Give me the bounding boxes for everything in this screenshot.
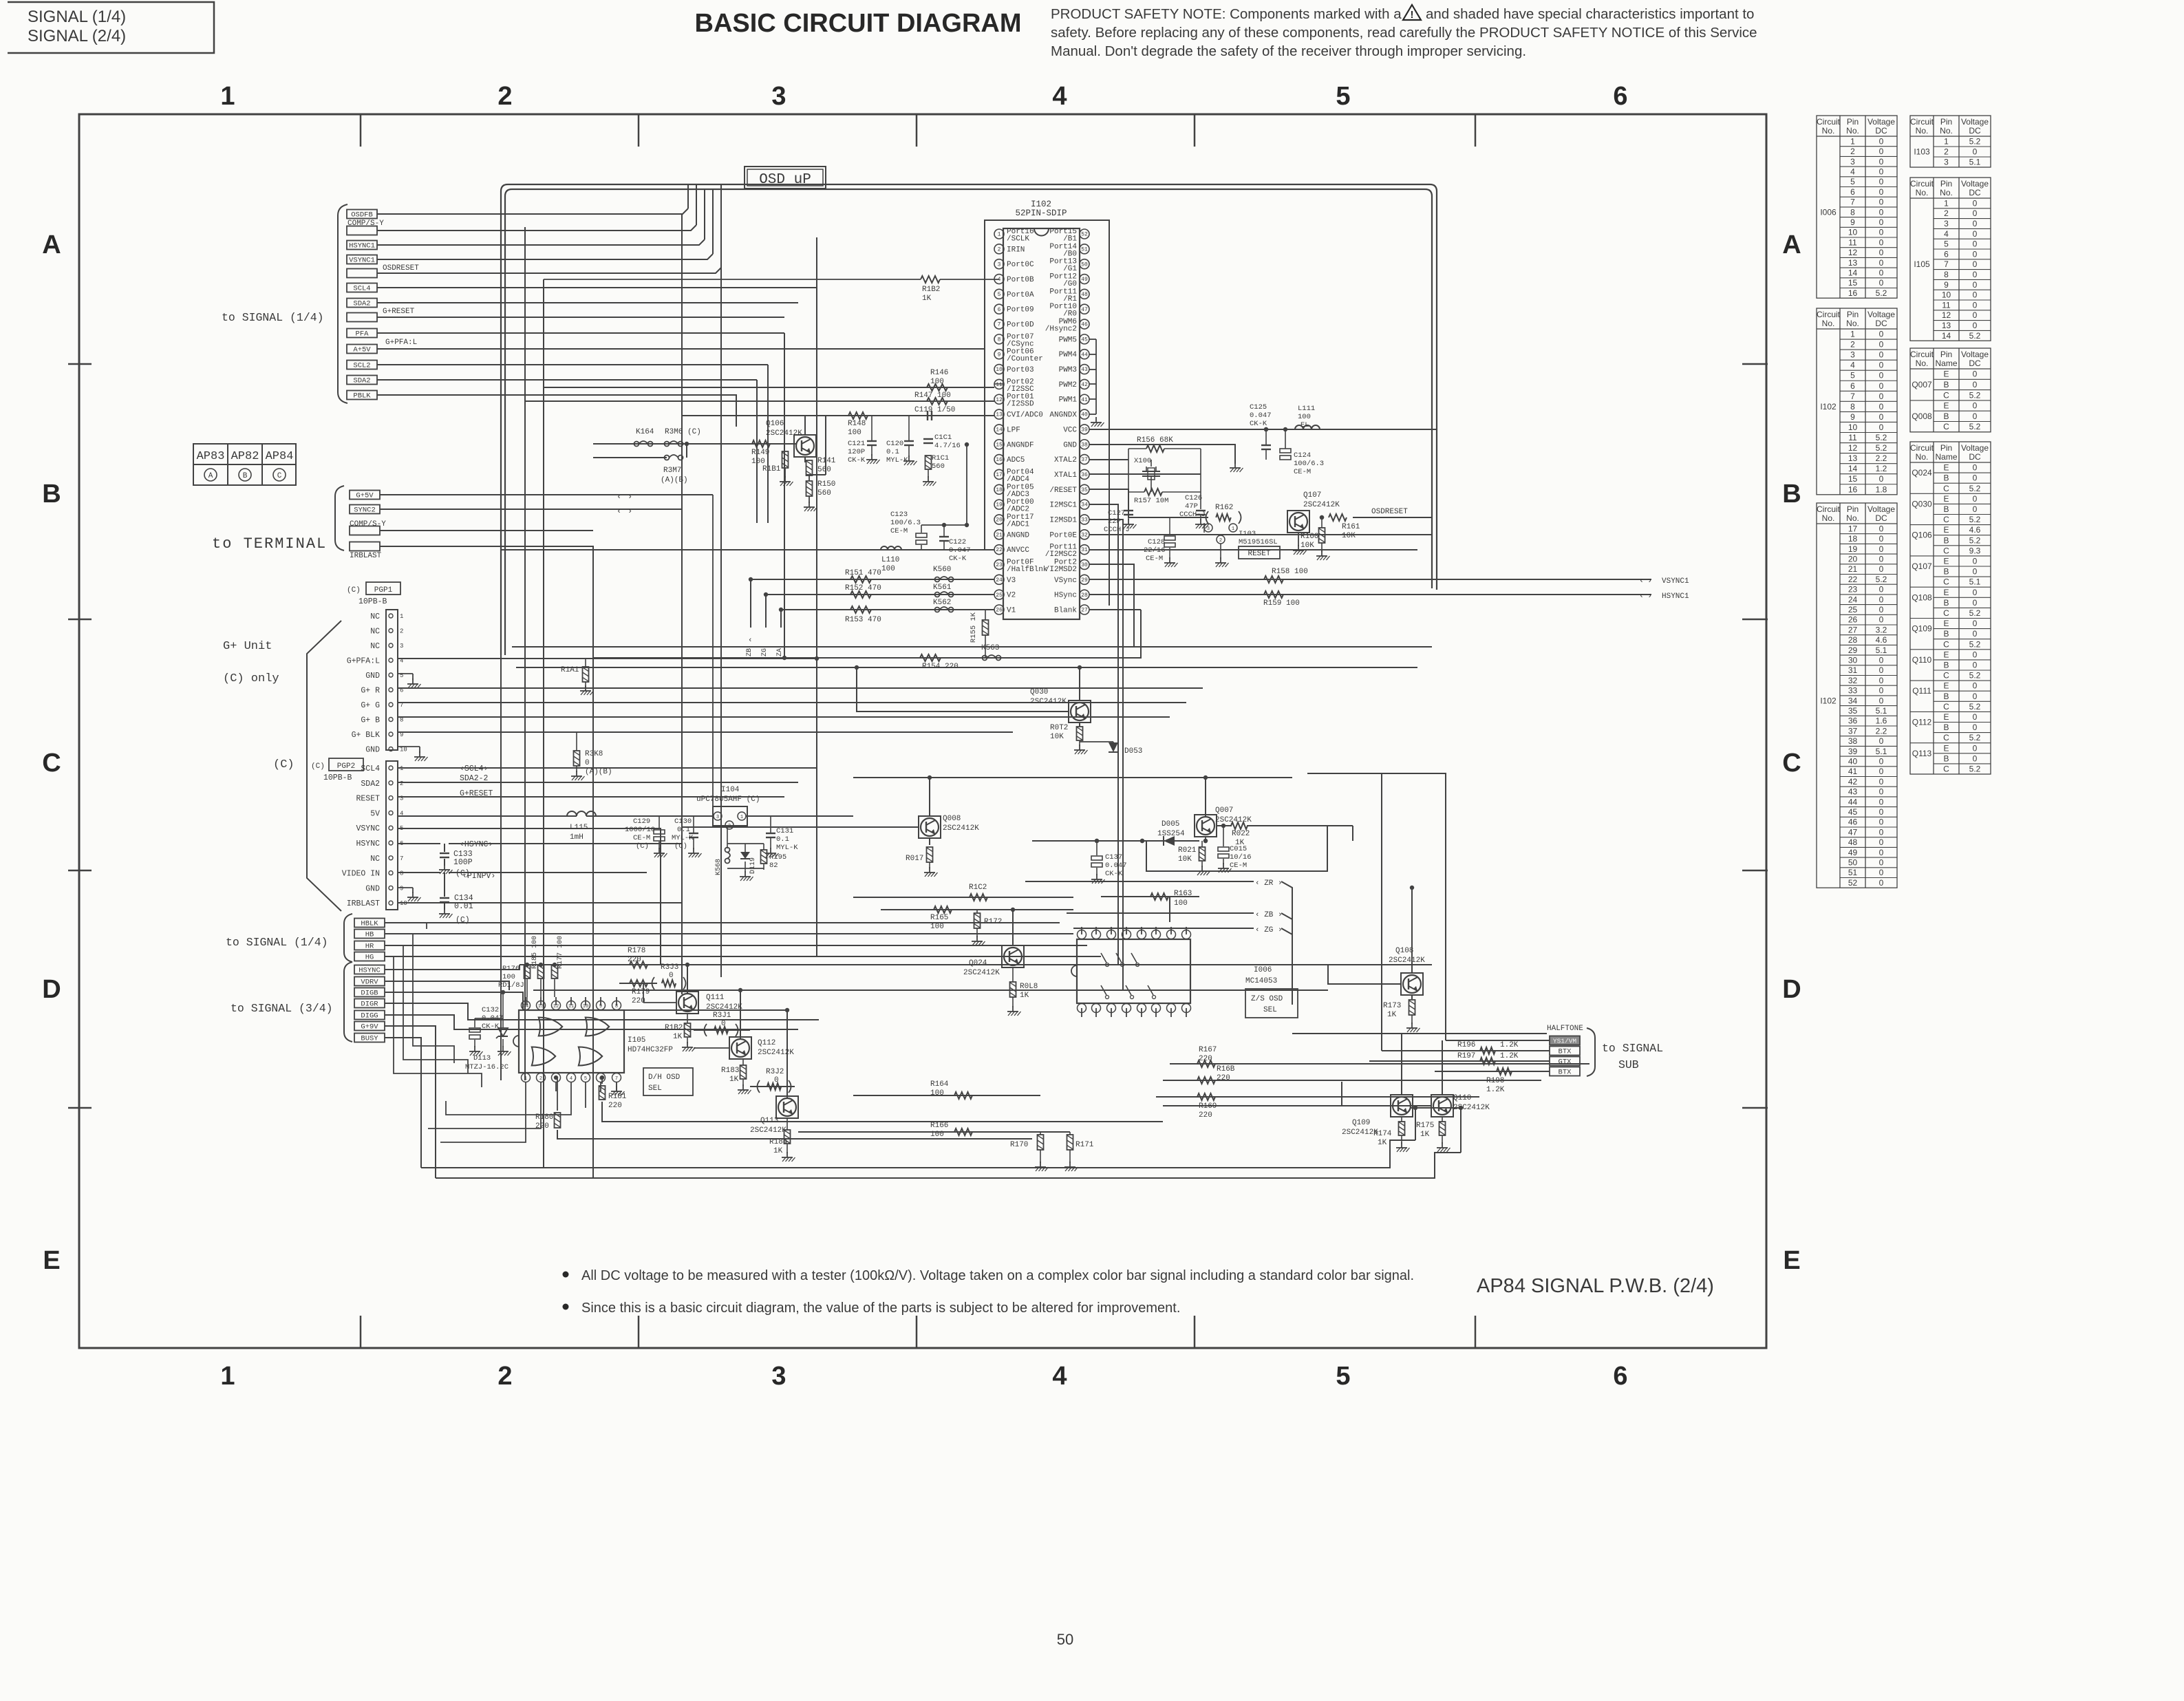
svg-text:B: B [1943, 535, 1949, 545]
svg-text:9: 9 [1944, 280, 1949, 290]
zener diode D113 [498, 1028, 508, 1036]
svg-text:0: 0 [1879, 136, 1884, 146]
wire Port0E row [1089, 534, 1432, 535]
svg-text:R197: R197 [1457, 1052, 1475, 1060]
svg-text:2: 2 [1944, 208, 1949, 218]
svg-text:220: 220 [608, 1102, 622, 1110]
svg-text:B: B [1943, 660, 1949, 670]
svg-text:0: 0 [1973, 321, 1978, 330]
svg-text:SCL4: SCL4 [361, 764, 380, 773]
wire I105 bottom stubs [525, 1082, 526, 1091]
svg-text:0: 0 [1879, 807, 1884, 817]
svg-text:0: 0 [1879, 392, 1884, 401]
ground ANGNDX rail [1095, 417, 1097, 422]
svg-text:SEL: SEL [648, 1084, 662, 1093]
svg-text:C122: C122 [949, 538, 966, 546]
svg-text:Circuit: Circuit [1910, 117, 1934, 127]
svg-text:SIGNAL (2/4): SIGNAL (2/4) [28, 27, 126, 45]
resistor R151 [850, 576, 871, 583]
svg-text:K164: K164 [636, 428, 654, 436]
svg-text:COMP/S-Y: COMP/S-Y [347, 220, 384, 228]
svg-text:4: 4 [1052, 1362, 1067, 1391]
svg-text:SIGNAL (1/4): SIGNAL (1/4) [28, 8, 126, 26]
grid tick marks top [360, 114, 362, 147]
svg-text:R169: R169 [1199, 1102, 1217, 1111]
svg-text:18: 18 [996, 487, 1003, 493]
svg-text:7: 7 [615, 1076, 618, 1082]
svg-text:220: 220 [1217, 1074, 1230, 1082]
svg-text:D: D [1782, 975, 1801, 1004]
capacitor C119 [927, 411, 928, 420]
svg-text:Q108: Q108 [1912, 592, 1932, 602]
svg-text:10PB-B: 10PB-B [323, 773, 352, 782]
svg-text:CK-K: CK-K [848, 456, 866, 464]
bracket G+ Unit block [307, 621, 341, 911]
svg-text:No.: No. [1822, 319, 1835, 328]
svg-text:0: 0 [1973, 660, 1978, 670]
svg-text:DIGB: DIGB [361, 989, 378, 998]
wire Q112 base [694, 1047, 729, 1049]
svg-text:0: 0 [1879, 228, 1884, 237]
svg-text:CE-M: CE-M [890, 527, 908, 535]
svg-text:(A)(B): (A)(B) [585, 768, 612, 776]
svg-text:42: 42 [1081, 382, 1088, 388]
svg-text:1K: 1K [673, 1033, 683, 1041]
svg-text:0: 0 [1973, 249, 1978, 259]
svg-text:CK-K: CK-K [1250, 420, 1267, 428]
svg-text:52: 52 [1081, 232, 1088, 238]
svg-text:1K: 1K [1387, 1011, 1397, 1019]
svg-text:33: 33 [1848, 686, 1858, 696]
bracket to SIGNAL (1/4) top [338, 204, 347, 403]
svg-text:VDRV: VDRV [361, 978, 378, 987]
svg-text:A: A [1782, 231, 1801, 259]
svg-text:0: 0 [1973, 380, 1978, 389]
svg-text:D/H OSD: D/H OSD [648, 1073, 681, 1082]
wire Q024 collector [1012, 910, 1014, 945]
ground R0L8 [1012, 1006, 1014, 1012]
svg-text:39: 39 [1081, 427, 1088, 434]
svg-text:G+ R: G+ R [361, 687, 380, 696]
svg-text:35: 35 [1081, 487, 1088, 493]
svg-text:R171: R171 [1075, 1141, 1094, 1149]
wire ZR row [1025, 881, 1254, 882]
resistor R022 [1231, 822, 1248, 829]
svg-text:B: B [1782, 480, 1801, 509]
wire V1 row [781, 609, 994, 610]
svg-text:SCL2: SCL2 [353, 362, 370, 370]
svg-text:5.1: 5.1 [1969, 158, 1981, 167]
wire XTAL1 row [1089, 473, 1201, 475]
capacitor C128 [1164, 536, 1175, 540]
resistor R182 top [921, 276, 940, 283]
svg-text:GND: GND [365, 884, 380, 893]
svg-text:21: 21 [996, 532, 1003, 538]
svg-text:36: 36 [1081, 472, 1088, 478]
svg-text:R185 100: R185 100 [531, 936, 539, 969]
svg-text:2SC2412K: 2SC2412K [1389, 956, 1425, 965]
svg-text:41: 41 [1081, 397, 1088, 403]
svg-text:CK-K: CK-K [949, 555, 967, 563]
svg-text:R153 470: R153 470 [845, 616, 881, 624]
svg-text:48: 48 [1081, 292, 1088, 298]
svg-text:0: 0 [1973, 494, 1978, 504]
wire D bus 1439 [533, 989, 1328, 991]
bracket to SIGNAL (3/4) [344, 962, 352, 1042]
svg-text:AP84: AP84 [266, 450, 294, 463]
grid tick marks right [1742, 363, 1768, 365]
svg-text:/CSync: /CSync [1007, 340, 1034, 348]
svg-text:B: B [1943, 567, 1949, 577]
svg-text:BTX: BTX [1559, 1069, 1572, 1077]
svg-text:G+ G: G+ G [361, 701, 380, 710]
svg-text:28: 28 [1081, 592, 1088, 599]
svg-text:R3K8: R3K8 [585, 750, 603, 758]
wire Port2 row [1089, 564, 1134, 647]
svg-text:0: 0 [1973, 692, 1978, 701]
wire K568 D119 R195 rail [727, 843, 764, 844]
svg-text:0: 0 [1973, 259, 1978, 269]
svg-text:R017: R017 [906, 855, 923, 863]
svg-text:R156 68K: R156 68K [1137, 436, 1173, 445]
svg-text:V3: V3 [1007, 577, 1016, 585]
svg-text:No.: No. [1846, 319, 1859, 328]
svg-text:5.2: 5.2 [1969, 331, 1981, 341]
jumper K560 [935, 577, 940, 582]
svg-text:0: 0 [1973, 619, 1978, 628]
wire D bus 1402 [520, 964, 1432, 965]
resistor R146 [927, 384, 948, 391]
label OSD uP [745, 167, 826, 189]
ground PGP1 pin5 [398, 673, 413, 674]
connector tag SYNC2 B-row y740 [350, 505, 380, 514]
svg-text:17: 17 [1848, 524, 1858, 533]
svg-text:R3M7: R3M7 [663, 467, 681, 475]
svg-text:100P: 100P [453, 858, 473, 867]
svg-text:0: 0 [1879, 676, 1884, 685]
svg-text:0: 0 [1973, 219, 1978, 228]
svg-text:100: 100 [930, 378, 944, 386]
svg-text:I006: I006 [1254, 966, 1272, 974]
resistor R165 [934, 906, 952, 913]
resistor R172 [974, 913, 981, 928]
svg-text:52PIN-SDIP: 52PIN-SDIP [1015, 208, 1067, 218]
svg-text:0: 0 [1879, 361, 1884, 370]
svg-text:4: 4 [1850, 361, 1855, 370]
svg-text:5: 5 [998, 292, 1001, 298]
connector tag SCL4 A-row y418 [347, 283, 377, 292]
svg-text:R1C2: R1C2 [969, 884, 987, 892]
svg-text:6: 6 [1850, 381, 1855, 391]
svg-text:14: 14 [523, 1004, 528, 1009]
svg-text:PBLK: PBLK [353, 392, 371, 400]
ground R0T2 [1079, 745, 1080, 750]
svg-text:DIGR: DIGR [361, 1001, 378, 1009]
svg-text:/I2SSC: /I2SSC [1007, 385, 1034, 394]
svg-text:›: › [1647, 576, 1652, 586]
svg-text:37: 37 [1081, 457, 1088, 463]
svg-text:R157 10M: R157 10M [1134, 497, 1168, 505]
svg-text:/B0: /B0 [1063, 250, 1077, 258]
svg-text:Q008: Q008 [943, 815, 961, 823]
svg-text:5.1: 5.1 [1876, 747, 1887, 756]
svg-text:0: 0 [1879, 665, 1884, 675]
connector tag unlabeled A-row y335 [347, 226, 377, 235]
ground R1C1 [928, 476, 929, 482]
svg-text:0: 0 [1879, 848, 1884, 857]
svg-text:0: 0 [1879, 248, 1884, 257]
svg-text:C: C [277, 472, 282, 480]
svg-text:100: 100 [881, 565, 895, 573]
svg-text:1SS254: 1SS254 [1157, 830, 1185, 838]
resistor R157 [1144, 489, 1162, 495]
svg-text:8: 8 [400, 870, 403, 877]
svg-text:46: 46 [1848, 817, 1858, 827]
svg-text:220: 220 [1199, 1111, 1212, 1120]
svg-text:IRIN: IRIN [1007, 246, 1025, 254]
wire HB row [385, 933, 1073, 934]
wire ZB diag [1281, 913, 1292, 919]
svg-text:V1: V1 [1007, 607, 1016, 615]
wire COMP/S-Y terminal row [380, 530, 593, 531]
svg-text:/R0: /R0 [1063, 310, 1077, 319]
resistor R161 [1329, 514, 1347, 521]
svg-text:8: 8 [998, 336, 1001, 343]
svg-text:11: 11 [1848, 237, 1857, 247]
wire box under D005 [1146, 826, 1327, 871]
wire top bus outer [501, 184, 1437, 655]
svg-text:42: 42 [1848, 777, 1858, 787]
svg-text:12: 12 [996, 397, 1003, 403]
svg-text:1K: 1K [729, 1076, 739, 1084]
svg-text:R155 1K: R155 1K [970, 612, 978, 643]
ground D119 rail [745, 871, 746, 877]
svg-text:1.6: 1.6 [1876, 716, 1887, 726]
svg-text:(C): (C) [273, 758, 295, 771]
svg-text:C125: C125 [1250, 403, 1267, 411]
svg-text:Pin: Pin [1940, 350, 1952, 359]
svg-text:50: 50 [1057, 1631, 1073, 1648]
wire Q109 base [1163, 1105, 1391, 1106]
svg-text:Q113: Q113 [760, 1117, 778, 1125]
svg-text:1K: 1K [1020, 992, 1029, 1000]
capacitor C132 [469, 1028, 480, 1032]
svg-text:Q111: Q111 [1912, 686, 1931, 696]
ground C015 [1223, 863, 1224, 868]
svg-text:B: B [1943, 504, 1949, 514]
wire ZB drop [750, 579, 751, 628]
svg-text:HALFTONE: HALFTONE [1547, 1025, 1583, 1033]
svg-text:38: 38 [1081, 442, 1088, 448]
bracket to SIGNAL SUB [1587, 1028, 1595, 1076]
svg-text:(C): (C) [347, 586, 361, 595]
svg-text:0: 0 [1973, 208, 1978, 218]
wire top bus inner [505, 189, 1432, 655]
wire Q110 collector [1442, 1040, 1443, 1095]
svg-text:3: 3 [1944, 158, 1949, 167]
svg-text:1: 1 [524, 1076, 527, 1082]
ground R1B1 [784, 476, 786, 482]
wire Q024 base [826, 956, 1002, 957]
svg-text:29: 29 [1848, 645, 1858, 655]
capacitor C015 [1218, 847, 1229, 851]
svg-text:10K: 10K [1050, 733, 1064, 741]
resistor R178 [630, 961, 647, 968]
svg-text:5.2: 5.2 [1969, 733, 1981, 742]
svg-text:Q008: Q008 [1912, 411, 1932, 421]
svg-text:0: 0 [1879, 371, 1884, 381]
connector tag OSDFB A-row y311 [347, 210, 377, 219]
svg-text:C1C1: C1C1 [934, 434, 952, 442]
connector tag GTX [1550, 1057, 1580, 1066]
svg-text:R151 470: R151 470 [845, 569, 881, 577]
svg-text:D053: D053 [1124, 747, 1142, 756]
svg-text:43: 43 [1081, 367, 1088, 373]
border frame [79, 114, 1766, 1348]
svg-text:C015: C015 [1230, 845, 1247, 853]
wire DIGG row [385, 1015, 798, 1029]
svg-text:VSync: VSync [1054, 577, 1077, 585]
svg-text:Q108: Q108 [1395, 947, 1413, 955]
resistor R0L8 [1010, 982, 1016, 997]
wire I105 pin riser 4 [585, 1091, 586, 1108]
capacitor C122 [939, 536, 949, 537]
svg-text:DIGG: DIGG [361, 1012, 378, 1020]
svg-text:‹SCL4›: ‹SCL4› [460, 764, 488, 773]
table I105 voltages [1910, 178, 1991, 341]
svg-text:39: 39 [1848, 747, 1858, 756]
wire R181 drop [601, 1078, 603, 1084]
svg-text:R0T2: R0T2 [1050, 724, 1068, 732]
svg-text:HSYNC1: HSYNC1 [1662, 592, 1689, 601]
svg-text:E: E [1783, 1246, 1800, 1275]
svg-text:HD74HC32FP: HD74HC32FP [628, 1046, 673, 1054]
svg-text:HSYNC: HSYNC [356, 839, 380, 848]
svg-text:E: E [1943, 619, 1949, 628]
svg-text:0: 0 [1879, 857, 1884, 867]
svg-text:6: 6 [998, 307, 1001, 313]
svg-text:0: 0 [1879, 878, 1884, 888]
wire HSYNC D row [385, 965, 520, 970]
svg-text:4.6: 4.6 [1876, 635, 1887, 645]
legend table AP83 AP82 AP84 [193, 444, 296, 485]
svg-text:Q106: Q106 [1912, 531, 1932, 540]
resistor R1B2 bottom [685, 1023, 691, 1037]
hybrid I103 reset detector [1204, 524, 1212, 532]
svg-text:R170: R170 [1010, 1141, 1028, 1149]
wire R165 row [881, 909, 1073, 910]
wire PGP2 VIDEOIN row [398, 872, 440, 873]
svg-text:560: 560 [817, 489, 831, 498]
wire R1C2 row [853, 897, 1073, 898]
wire row 940 long bus [512, 646, 1432, 648]
svg-text:ZG: ZG [761, 648, 769, 656]
svg-text:CE-M: CE-M [1294, 468, 1311, 476]
svg-text:0: 0 [1973, 681, 1978, 691]
table Q024-Q113 voltages [1910, 442, 1991, 774]
svg-text:0: 0 [1973, 280, 1978, 290]
svg-text:Q030: Q030 [1912, 499, 1932, 509]
wire Q007 collector [1205, 778, 1206, 816]
svg-text:48: 48 [1848, 837, 1858, 847]
svg-text:6: 6 [1613, 82, 1627, 111]
svg-text:K568: K568 [715, 859, 722, 875]
svg-text:31: 31 [1081, 547, 1088, 553]
svg-text:RD1/8J: RD1/8J [498, 981, 524, 989]
wire vertical bus x763 [524, 227, 526, 1080]
svg-text:2SC2412K: 2SC2412K [963, 969, 1000, 977]
ground R172 [976, 936, 978, 941]
wire RESET row 711 [1089, 489, 1208, 517]
svg-text:I105: I105 [1914, 259, 1930, 269]
table I102 voltages pins 17-52 [1817, 503, 1897, 888]
diode D119 [740, 852, 750, 859]
junction dot K164-R3M6 [685, 442, 689, 446]
svg-text:CE-M: CE-M [633, 834, 650, 842]
resistor R174 [1399, 1122, 1405, 1135]
svg-text:ANGNDX: ANGNDX [1049, 411, 1077, 420]
svg-text:0: 0 [1879, 696, 1884, 705]
svg-text:I103: I103 [1239, 530, 1256, 538]
svg-text:1: 1 [1850, 330, 1855, 339]
wire staircase nested 3 [394, 956, 482, 1087]
svg-text:R166: R166 [930, 1122, 948, 1130]
footer note bullet 1 [563, 1272, 569, 1278]
svg-text:5.2: 5.2 [1969, 535, 1981, 545]
svg-text:2: 2 [497, 1362, 512, 1391]
ground R017 [929, 867, 930, 873]
resistor R147 [927, 398, 948, 405]
svg-text:RESET: RESET [356, 795, 380, 804]
svg-text:Circuit: Circuit [1910, 179, 1934, 189]
resistor R3J1 [714, 1027, 728, 1034]
svg-text:4: 4 [1944, 229, 1949, 239]
bracket to SIGNAL (1/4) bottom [344, 914, 352, 962]
resistor R181 [599, 1086, 606, 1100]
svg-text:1K: 1K [773, 1147, 783, 1155]
svg-text:R159 100: R159 100 [1263, 599, 1300, 608]
ground C137 [1096, 874, 1098, 879]
svg-text:6: 6 [1850, 187, 1855, 197]
svg-text:45: 45 [1848, 807, 1858, 817]
connector tag DIGG [354, 1011, 385, 1020]
svg-text:23: 23 [1848, 585, 1858, 595]
wire Q106 emitter chain [804, 457, 806, 462]
svg-text:Q112: Q112 [758, 1039, 775, 1047]
svg-text:21: 21 [1848, 564, 1858, 574]
connector tag SDA2 A-row y552 [347, 376, 377, 385]
connector tag YS1/VM shaded [1550, 1036, 1580, 1045]
connector tag unlabeled B-row y771 [350, 526, 380, 535]
svg-text:K561: K561 [933, 584, 952, 592]
svg-text:0: 0 [1879, 177, 1884, 186]
ground R1A1 [585, 685, 586, 691]
svg-text:D113: D113 [473, 1054, 491, 1062]
svg-text:2.2: 2.2 [1876, 453, 1887, 463]
svg-text:/HalfBlnk: /HalfBlnk [1007, 566, 1048, 574]
resistor R3J3 [662, 980, 676, 987]
svg-text:L110: L110 [881, 556, 899, 564]
connector tag unlabeled A-row y397 [347, 269, 377, 278]
ground PGP1 pin10 [398, 746, 420, 747]
svg-text:SUB: SUB [1618, 1058, 1639, 1071]
resistor R1C2 [970, 894, 987, 901]
wire DIGR row [385, 1003, 819, 1020]
svg-text:Q107: Q107 [1303, 491, 1321, 500]
svg-text:12: 12 [553, 1004, 559, 1009]
resistor R155 [983, 620, 989, 635]
resistor R197 [1480, 1058, 1495, 1065]
